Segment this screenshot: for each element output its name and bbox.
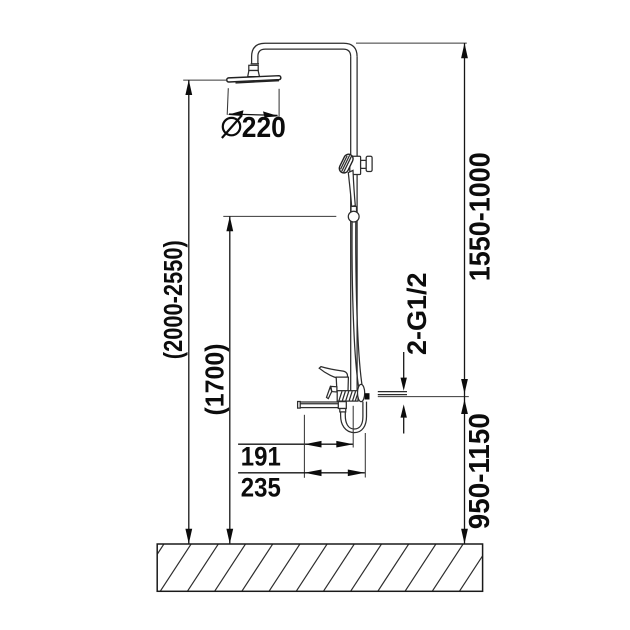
svg-text:1550-1000: 1550-1000	[464, 152, 496, 281]
svg-text:(2000-2550): (2000-2550)	[158, 240, 188, 359]
shower arm connector nut	[251, 63, 259, 65]
riser pipe	[356, 57, 358, 391]
wall centerline	[378, 396, 469, 398]
top supply pipe	[252, 43, 358, 64]
wall supply pipes	[378, 391, 407, 393]
threaded wall connection	[337, 391, 358, 401]
dimension (1700)	[223, 215, 336, 217]
diverter knob	[331, 386, 337, 392]
shower hose loop	[341, 402, 367, 433]
bath spout	[299, 402, 342, 408]
svg-text:2-G1/2: 2-G1/2	[402, 273, 432, 356]
dimension diameter 220	[227, 88, 228, 115]
dimension 191	[238, 443, 353, 445]
svg-text:220: 220	[242, 112, 286, 144]
dimension 235	[238, 472, 365, 474]
dimension 1550-1000	[356, 42, 467, 44]
rain shower head	[227, 76, 281, 82]
shower hose upper	[352, 222, 359, 388]
wall flange	[358, 384, 365, 401]
floor	[133, 544, 490, 591]
svg-text:235: 235	[241, 472, 281, 502]
dimension (2000-2550)	[183, 79, 227, 81]
supply stub	[365, 393, 370, 399]
hand shower bracket	[350, 156, 361, 174]
svg-text:(1700): (1700)	[199, 344, 229, 416]
dimension 950-1150	[461, 399, 468, 414]
spout nut	[340, 409, 346, 412]
mixer body	[336, 377, 348, 391]
svg-text:950-1150: 950-1150	[464, 413, 496, 529]
hand shower	[338, 153, 355, 175]
svg-text:191: 191	[241, 442, 281, 472]
dimension 2-G1/2	[403, 352, 405, 379]
diameter symbol	[223, 118, 240, 135]
mixer lever	[319, 367, 347, 380]
